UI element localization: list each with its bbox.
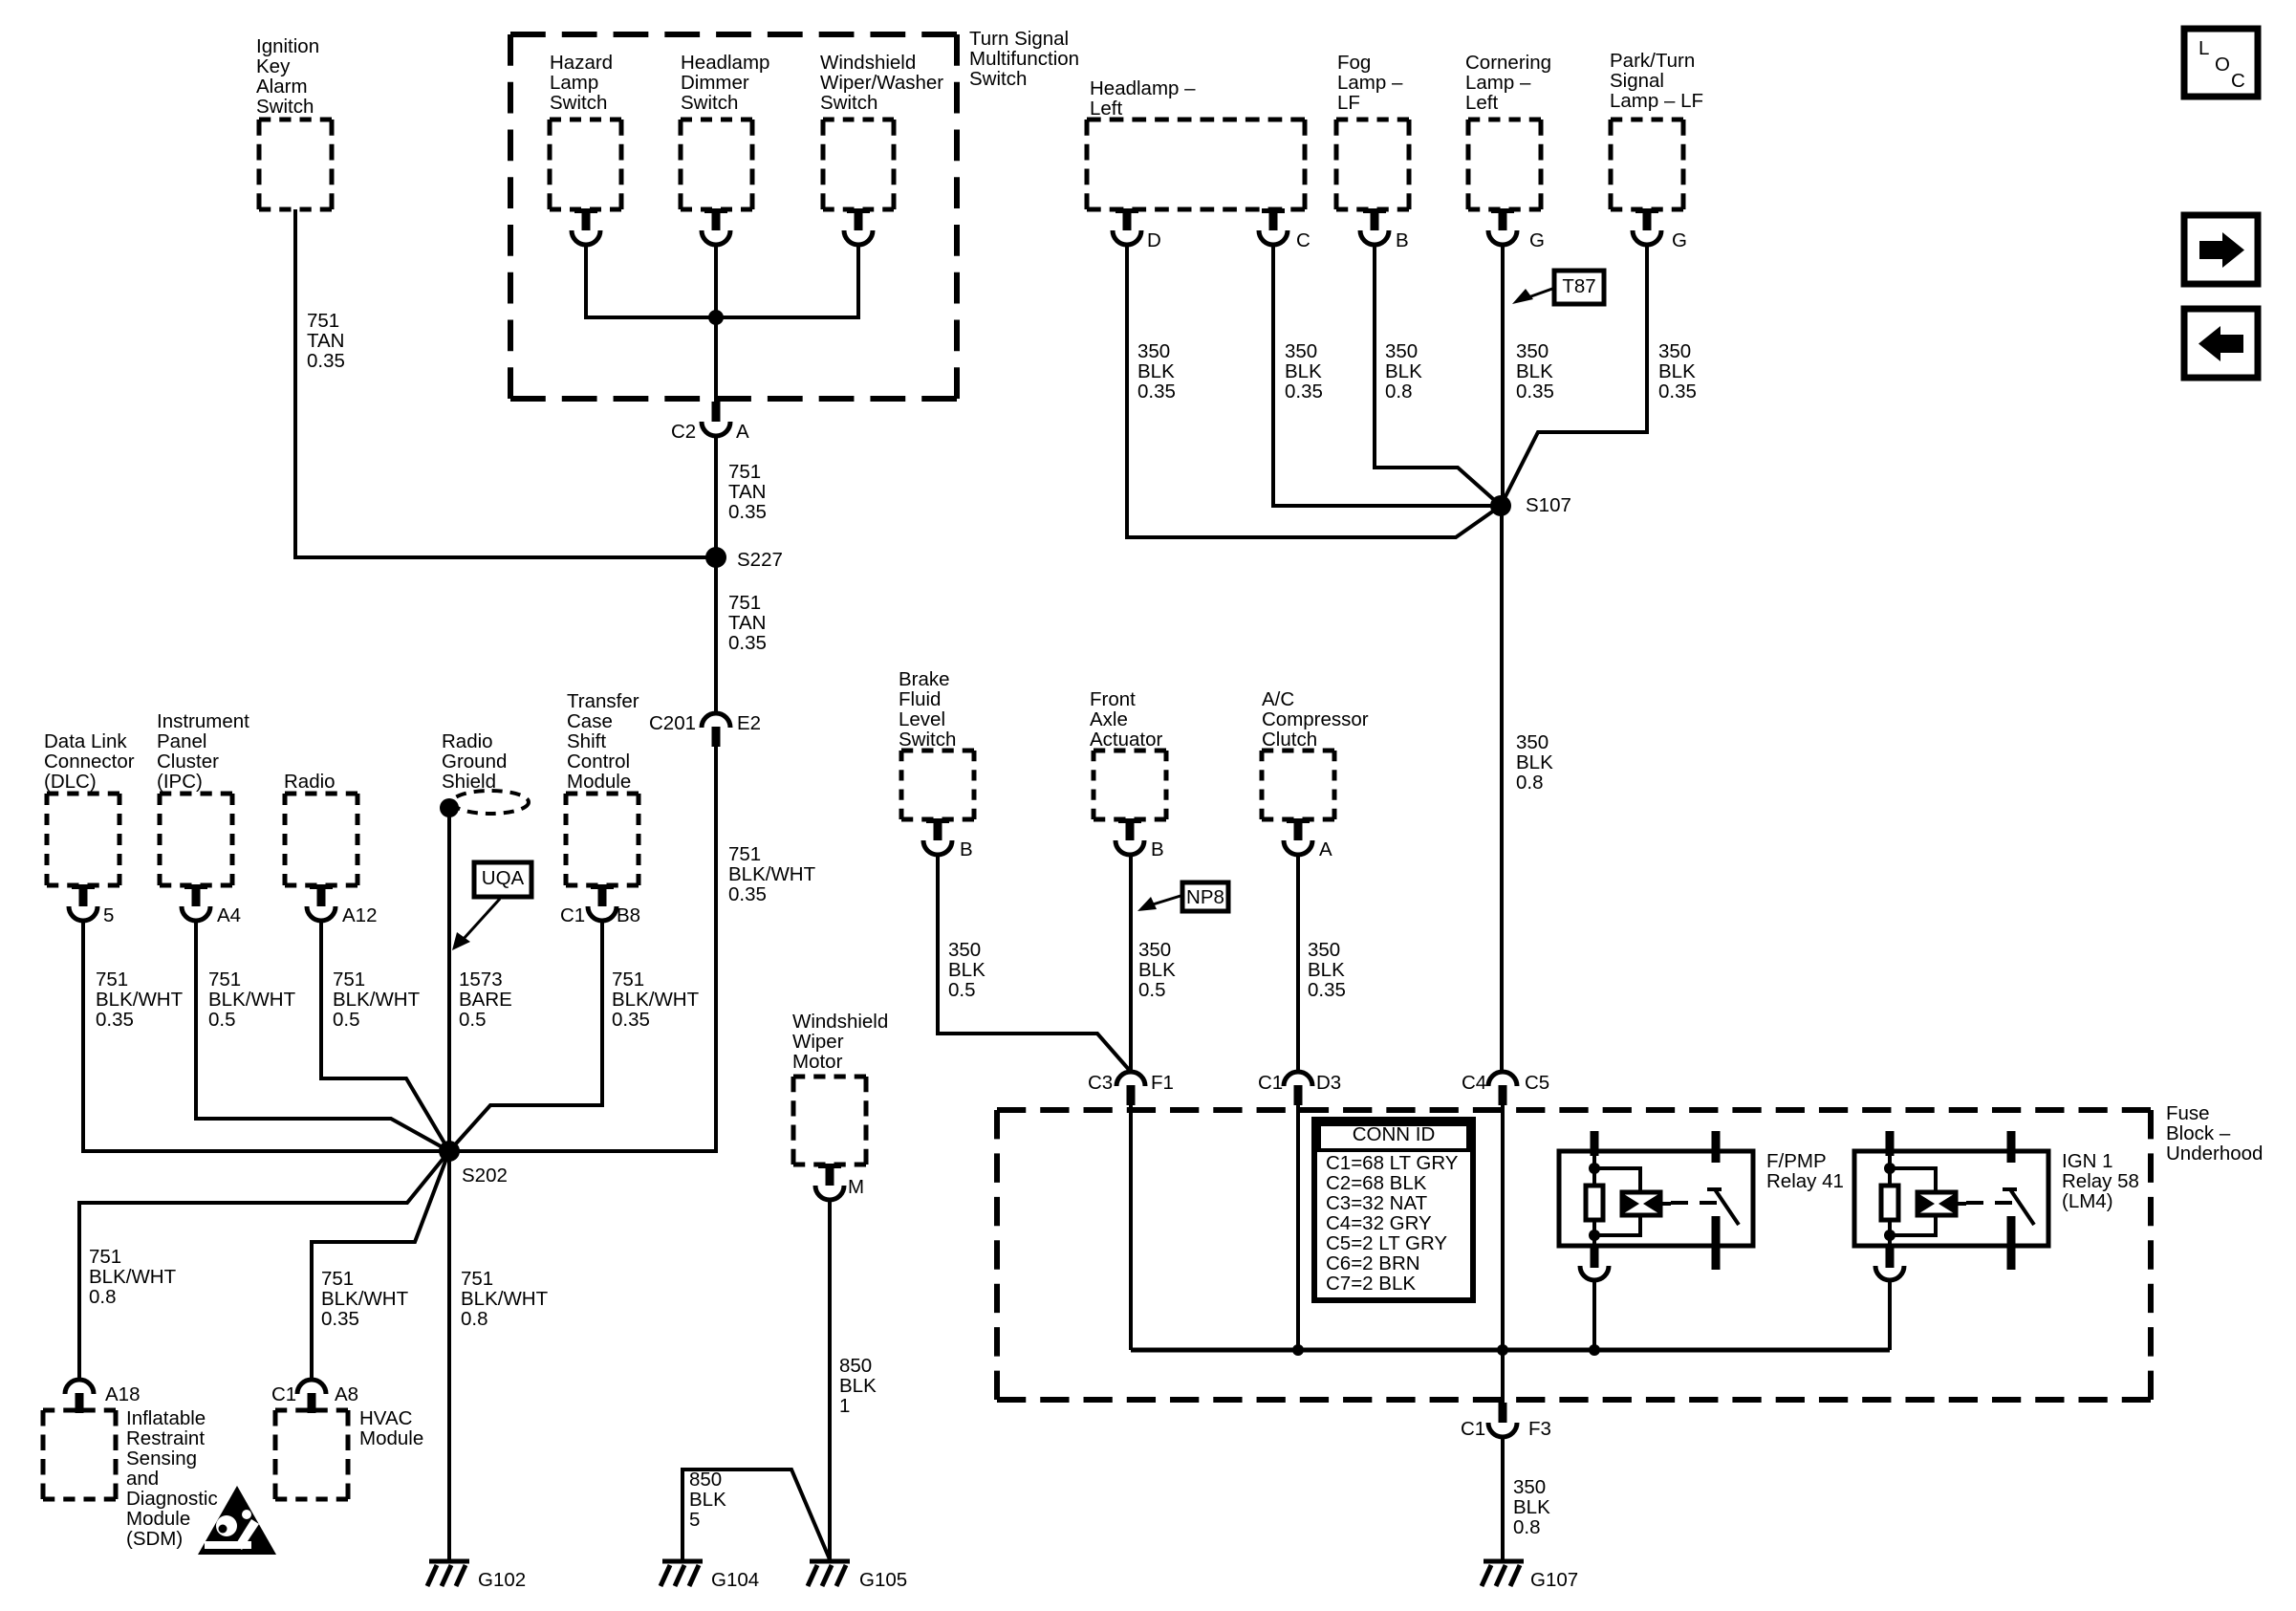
svg-text:Connector: Connector: [44, 751, 135, 773]
relay Relay 41 actuator dashed link: [1671, 1201, 1721, 1205]
svg-text:0.35: 0.35: [96, 1009, 134, 1031]
ground G102: [429, 1559, 469, 1564]
svg-text:Signal: Signal: [1610, 70, 1664, 92]
svg-text:Panel: Panel: [157, 730, 206, 752]
svg-text:Ground: Ground: [442, 751, 507, 773]
svg-text:BLK: BLK: [1516, 360, 1553, 382]
svg-text:A18: A18: [105, 1383, 140, 1405]
svg-text:Lamp – LF: Lamp – LF: [1610, 90, 1703, 112]
svg-text:Lamp –: Lamp –: [1465, 72, 1531, 94]
svg-text:BLK: BLK: [1138, 959, 1176, 981]
svg-text:0.35: 0.35: [307, 350, 345, 372]
navigation arrow left box: [2184, 309, 2258, 378]
svg-text:0.5: 0.5: [333, 1009, 360, 1031]
svg-text:C1: C1: [1461, 1418, 1485, 1440]
svg-text:BLK: BLK: [948, 959, 986, 981]
svg-text:CONN ID: CONN ID: [1353, 1123, 1436, 1145]
svg-text:Key: Key: [256, 55, 291, 77]
junction dot bus at F/PMP relay wire: [1589, 1344, 1600, 1356]
svg-text:Relay 41: Relay 41: [1766, 1170, 1844, 1192]
relay Relay 58 switch top pin: [2007, 1131, 2016, 1163]
svg-text:Case: Case: [567, 710, 613, 732]
svg-text:Lamp –: Lamp –: [1337, 72, 1403, 94]
svg-text:C6=2 BRN: C6=2 BRN: [1326, 1252, 1420, 1274]
wire 751 BLK/WHT 0.5 from IPC A4 to S202: [196, 919, 449, 1151]
svg-text:Block –: Block –: [2166, 1122, 2231, 1144]
svg-text:BLK: BLK: [1513, 1496, 1550, 1518]
svg-text:Restraint: Restraint: [126, 1427, 205, 1449]
wire from C1-D3 into fuse block to ground bus: [1296, 1103, 1300, 1350]
svg-text:Actuator: Actuator: [1090, 729, 1163, 751]
svg-text:BLK: BLK: [1385, 360, 1422, 382]
wire 350 BLK 0.8 from C1-F3 to G107: [1501, 1437, 1505, 1561]
wire 1573 BARE 0.5 from Radio Ground Shield through S202 to G102: [447, 815, 451, 1561]
svg-text:HVAC: HVAC: [359, 1407, 413, 1429]
svg-text:751: 751: [96, 969, 128, 991]
svg-text:350: 350: [1658, 340, 1691, 362]
svg-text:C1=68 LT GRY: C1=68 LT GRY: [1326, 1152, 1459, 1174]
svg-text:B8: B8: [617, 904, 640, 926]
svg-text:Cornering: Cornering: [1465, 52, 1551, 74]
wire from relay Relay 41 output to ground bus: [1592, 1280, 1596, 1350]
svg-text:F/PMP: F/PMP: [1766, 1150, 1827, 1172]
junction dot bus at D3 wire: [1292, 1344, 1304, 1356]
relay Relay 58 coil symbol: [1917, 1192, 1956, 1215]
svg-text:C4=32 GRY: C4=32 GRY: [1326, 1212, 1432, 1234]
svg-text:Windshield: Windshield: [792, 1011, 888, 1033]
relay box F/PMP Relay 41: [1559, 1151, 1753, 1246]
wire 350 BLK 0.35 from A/C Compressor Clutch A to C1-D3: [1296, 853, 1300, 1072]
svg-text:751: 751: [321, 1268, 354, 1290]
connector pin of Windshield Wiper/Washer Switch: [847, 208, 870, 213]
svg-text:0.35: 0.35: [612, 1009, 650, 1031]
wire 350 BLK 0.8 from Fog Lamp B to S107: [1375, 243, 1501, 506]
svg-text:IGN 1: IGN 1: [2062, 1150, 2113, 1172]
svg-text:751: 751: [461, 1268, 493, 1290]
svg-text:Relay 58: Relay 58: [2062, 1170, 2139, 1192]
svg-text:LF: LF: [1337, 92, 1360, 114]
wire 350 BLK 0.5 from Brake Fluid Level Switch B to C3-F1: [938, 853, 1131, 1072]
svg-text:Inflatable: Inflatable: [126, 1407, 206, 1429]
relay Relay 41 switch blade: [1707, 1187, 1722, 1191]
svg-text:751: 751: [728, 592, 761, 614]
svg-text:0.35: 0.35: [1137, 381, 1176, 403]
wire from Windshield Wiper/Washer Switch to junction: [716, 243, 858, 317]
svg-text:0.35: 0.35: [1658, 381, 1697, 403]
svg-text:751: 751: [728, 461, 761, 483]
wire 850 BLK 1 from Wiper Motor M to G105: [828, 1198, 832, 1561]
relay Relay 58 switch bottom pin: [2007, 1216, 2016, 1270]
svg-text:BLK/WHT: BLK/WHT: [612, 989, 700, 1011]
svg-text:B: B: [1151, 838, 1164, 860]
wire 850 BLK 5 from G104 to G105: [682, 1469, 830, 1561]
relay Relay 58 actuator dashed link: [1966, 1201, 2016, 1205]
svg-text:0.35: 0.35: [728, 883, 767, 905]
svg-text:S202: S202: [462, 1165, 508, 1186]
label flag UQA with arrow: [474, 862, 531, 897]
label flag T87 with arrow: [1554, 271, 1604, 304]
svg-text:G102: G102: [478, 1569, 526, 1591]
svg-text:751: 751: [208, 969, 241, 991]
svg-text:BLK: BLK: [1308, 959, 1345, 981]
svg-text:751: 751: [728, 843, 761, 865]
svg-text:BLK/WHT: BLK/WHT: [333, 989, 421, 1011]
svg-text:751: 751: [89, 1246, 121, 1268]
module box: HVAC Module: [275, 1408, 348, 1413]
svg-text:(DLC): (DLC): [44, 771, 97, 793]
relay Relay 58 coil top pin: [1886, 1131, 1895, 1156]
svg-text:0.35: 0.35: [728, 632, 767, 654]
wire from Hazard Lamp Switch to junction: [586, 243, 716, 317]
svg-text:Module: Module: [359, 1427, 423, 1449]
wire 751 BLK/WHT 0.35 from DLC 5 to S202: [83, 919, 449, 1151]
svg-text:0.8: 0.8: [1516, 772, 1544, 794]
svg-text:A8: A8: [335, 1383, 358, 1405]
svg-text:350: 350: [1285, 340, 1317, 362]
svg-text:350: 350: [948, 939, 981, 961]
wire 350 BLK 0.35 from Cornering Lamp G to S107: [1501, 243, 1505, 506]
svg-text:TAN: TAN: [728, 612, 766, 634]
svg-text:751: 751: [612, 969, 644, 991]
svg-text:L: L: [2199, 37, 2209, 59]
navigation arrow right box: [2184, 215, 2258, 284]
svg-text:M: M: [848, 1176, 864, 1198]
svg-text:0.35: 0.35: [1308, 979, 1346, 1001]
ground G107: [1484, 1559, 1524, 1564]
svg-text:D: D: [1147, 229, 1161, 251]
svg-text:Left: Left: [1465, 92, 1498, 114]
svg-text:Dimmer: Dimmer: [681, 72, 749, 94]
svg-text:E2: E2: [737, 712, 761, 734]
svg-text:5: 5: [689, 1509, 700, 1531]
svg-text:0.35: 0.35: [1516, 381, 1554, 403]
wire 751 TAN 0.35 from C2-A to S227: [714, 436, 718, 557]
svg-text:0.5: 0.5: [208, 1009, 236, 1031]
CONN ID table: [1314, 1120, 1473, 1300]
svg-text:TAN: TAN: [728, 481, 766, 503]
fuse block ground bus wire: [1131, 1348, 1890, 1353]
splice S202: [439, 1141, 460, 1162]
wire 751 BLK/WHT 0.35 from S202 to HVAC A8: [312, 1151, 449, 1380]
svg-text:G104: G104: [711, 1569, 759, 1591]
connector pin of Headlamp Dimmer Switch: [704, 208, 727, 213]
svg-text:Control: Control: [567, 751, 630, 773]
svg-text:350: 350: [1516, 340, 1549, 362]
relay Relay 58 output pin connector: [1886, 1246, 1895, 1268]
svg-text:G: G: [1529, 229, 1545, 251]
splice S227: [705, 547, 726, 568]
svg-text:A/C: A/C: [1262, 688, 1294, 710]
relay Relay 41 switch bottom pin: [1712, 1216, 1721, 1270]
svg-text:C1: C1: [1258, 1072, 1283, 1094]
svg-text:0.8: 0.8: [1513, 1516, 1541, 1538]
svg-text:Brake: Brake: [899, 668, 950, 690]
wire 350 BLK 0.5 from Front Axle Actuator B to C3-F1: [1129, 853, 1133, 1072]
svg-text:Switch: Switch: [681, 92, 738, 114]
svg-text:and: and: [126, 1468, 159, 1490]
svg-text:BLK/WHT: BLK/WHT: [321, 1288, 409, 1310]
svg-text:Left: Left: [1090, 98, 1122, 120]
wire 751 TAN 0.35 from S227 to C201: [714, 557, 718, 713]
svg-text:Switch: Switch: [899, 729, 956, 751]
svg-text:Axle: Axle: [1090, 708, 1128, 730]
svg-text:T87: T87: [1562, 275, 1595, 297]
svg-text:Compressor: Compressor: [1262, 708, 1369, 730]
svg-text:C: C: [2231, 70, 2245, 92]
svg-text:Module: Module: [126, 1508, 190, 1530]
ground G105: [810, 1559, 850, 1564]
svg-text:(LM4): (LM4): [2062, 1190, 2113, 1212]
svg-text:Ignition: Ignition: [256, 35, 319, 57]
svg-text:Cluster: Cluster: [157, 751, 219, 773]
relay Relay 41 coil top pin: [1591, 1131, 1599, 1156]
junction dot bus at C5 wire: [1497, 1344, 1508, 1356]
navigation legend LOC box: [2184, 29, 2258, 97]
svg-text:(IPC): (IPC): [157, 771, 203, 793]
svg-text:B: B: [1396, 229, 1409, 251]
svg-text:C5: C5: [1525, 1072, 1549, 1094]
svg-text:BLK/WHT: BLK/WHT: [461, 1288, 549, 1310]
label flag NP8 with arrow: [1182, 882, 1228, 911]
svg-text:Alarm: Alarm: [256, 76, 308, 98]
svg-text:C7=2 BLK: C7=2 BLK: [1326, 1273, 1416, 1295]
svg-text:Clutch: Clutch: [1262, 729, 1317, 751]
svg-text:BLK/WHT: BLK/WHT: [208, 989, 296, 1011]
svg-text:BLK: BLK: [1658, 360, 1696, 382]
wire 350 BLK 0.35 from Headlamp-Left C to S107: [1273, 243, 1501, 506]
svg-text:C201: C201: [649, 712, 696, 734]
relay Relay 41 output pin connector: [1591, 1246, 1599, 1268]
svg-text:0.35: 0.35: [728, 501, 767, 523]
svg-text:F3: F3: [1528, 1418, 1551, 1440]
svg-text:1573: 1573: [459, 969, 503, 991]
svg-text:C: C: [1296, 229, 1310, 251]
svg-text:Instrument: Instrument: [157, 710, 249, 732]
wire from relay Relay 58 output to ground bus: [1888, 1280, 1892, 1350]
svg-text:751: 751: [307, 310, 339, 332]
svg-text:A: A: [736, 421, 749, 443]
svg-text:A4: A4: [217, 904, 241, 926]
svg-text:NP8: NP8: [1186, 886, 1224, 908]
svg-text:(SDM): (SDM): [126, 1528, 183, 1550]
svg-text:BLK: BLK: [1285, 360, 1322, 382]
svg-text:BLK/WHT: BLK/WHT: [89, 1266, 177, 1288]
relay Relay 41 coil circuit: [1592, 1151, 1596, 1186]
svg-text:C3=32 NAT: C3=32 NAT: [1326, 1192, 1428, 1214]
wire 751 BLK/WHT 0.35 from TCSCM B8 to S202: [449, 919, 602, 1151]
svg-text:0.8: 0.8: [1385, 381, 1413, 403]
svg-text:Radio: Radio: [284, 771, 336, 793]
relay box IGN 1 Relay 58: [1854, 1151, 2048, 1246]
svg-text:O: O: [2215, 54, 2230, 76]
svg-text:B: B: [960, 838, 973, 860]
svg-text:Shift: Shift: [567, 730, 606, 752]
svg-text:Module: Module: [567, 771, 631, 793]
svg-text:C2=68 BLK: C2=68 BLK: [1326, 1172, 1427, 1194]
SDM airbag warning triangle icon: [198, 1486, 276, 1555]
wire from Headlamp Dimmer Switch to C2: [714, 243, 718, 403]
svg-text:0.5: 0.5: [1138, 979, 1166, 1001]
module box: Fuse Block - Underhood (dashed): [997, 1107, 2151, 1113]
svg-text:G: G: [1672, 229, 1687, 251]
svg-text:D3: D3: [1316, 1072, 1341, 1094]
svg-text:C5=2 LT GRY: C5=2 LT GRY: [1326, 1232, 1447, 1254]
svg-text:BLK/WHT: BLK/WHT: [728, 863, 816, 885]
wire 751 BLK/WHT 0.5 from Radio A12 to S202: [321, 919, 449, 1151]
svg-text:Underhood: Underhood: [2166, 1143, 2263, 1165]
svg-text:0.35: 0.35: [1285, 381, 1323, 403]
svg-text:BLK/WHT: BLK/WHT: [96, 989, 184, 1011]
svg-text:Switch: Switch: [256, 96, 314, 118]
junction dot inside Turn Signal Multifunction Switch: [708, 310, 724, 325]
svg-text:Hazard: Hazard: [550, 52, 613, 74]
svg-text:Headlamp –: Headlamp –: [1090, 77, 1196, 99]
svg-text:Level: Level: [899, 708, 945, 730]
svg-text:Fog: Fog: [1337, 52, 1371, 74]
svg-text:Fuse: Fuse: [2166, 1102, 2210, 1124]
svg-text:C4: C4: [1462, 1072, 1486, 1094]
svg-text:0.35: 0.35: [321, 1308, 359, 1330]
svg-text:Diagnostic: Diagnostic: [126, 1488, 218, 1510]
svg-text:350: 350: [1516, 731, 1549, 753]
svg-text:Switch: Switch: [820, 92, 877, 114]
svg-text:Data Link: Data Link: [44, 730, 127, 752]
svg-text:Switch: Switch: [969, 68, 1027, 90]
svg-text:A: A: [1319, 838, 1332, 860]
svg-text:UQA: UQA: [482, 867, 525, 889]
svg-text:S107: S107: [1526, 494, 1571, 516]
wire 751 BLK/WHT 0.8 from S202 to A18: [79, 1151, 449, 1380]
svg-text:Wiper/Washer: Wiper/Washer: [820, 72, 943, 94]
svg-text:C2: C2: [671, 421, 696, 443]
splice S107: [1490, 495, 1511, 516]
svg-text:Park/Turn: Park/Turn: [1610, 50, 1695, 72]
svg-text:C3: C3: [1088, 1072, 1113, 1094]
svg-text:Lamp: Lamp: [550, 72, 598, 94]
svg-text:0.8: 0.8: [461, 1308, 488, 1330]
relay Relay 41 coil symbol: [1622, 1192, 1660, 1215]
svg-text:1: 1: [839, 1395, 850, 1417]
svg-text:850: 850: [689, 1469, 722, 1491]
svg-text:Shield: Shield: [442, 771, 496, 793]
svg-text:TAN: TAN: [307, 330, 344, 352]
svg-text:Wiper: Wiper: [792, 1031, 844, 1053]
svg-text:F1: F1: [1151, 1072, 1174, 1094]
svg-text:G105: G105: [859, 1569, 907, 1591]
svg-text:Fluid: Fluid: [899, 688, 941, 710]
wire from C3-F1 into fuse block to ground bus: [1129, 1103, 1133, 1350]
svg-text:850: 850: [839, 1355, 872, 1377]
svg-text:G107: G107: [1530, 1569, 1578, 1591]
relay Relay 58 switch blade: [2003, 1187, 2017, 1191]
svg-text:350: 350: [1138, 939, 1171, 961]
wire 751 TAN 0.35 from Ignition Key Alarm Switch to S227: [295, 209, 713, 557]
svg-text:350: 350: [1308, 939, 1340, 961]
svg-text:BLK: BLK: [1516, 751, 1553, 773]
svg-text:350: 350: [1385, 340, 1418, 362]
svg-text:5: 5: [103, 904, 114, 926]
svg-text:BLK: BLK: [689, 1489, 726, 1511]
svg-text:C1: C1: [271, 1383, 296, 1405]
wire 350 BLK 0.35 from Headlamp-Left D to S107: [1127, 243, 1501, 537]
svg-text:Headlamp: Headlamp: [681, 52, 769, 74]
svg-text:Radio: Radio: [442, 730, 493, 752]
relay Relay 41 switch top pin: [1712, 1131, 1721, 1163]
svg-text:C1: C1: [560, 904, 585, 926]
svg-text:Motor: Motor: [792, 1051, 843, 1073]
wire 350 BLK 0.8 from S107 to C4-C5: [1500, 506, 1504, 1072]
svg-text:BLK: BLK: [1137, 360, 1175, 382]
svg-text:BLK: BLK: [839, 1375, 877, 1397]
wire 350 BLK 0.35 from Park/Turn Signal Lamp G to S107: [1501, 243, 1647, 506]
svg-text:751: 751: [333, 969, 365, 991]
svg-text:Front: Front: [1090, 688, 1136, 710]
svg-text:0.5: 0.5: [948, 979, 976, 1001]
ground G104: [662, 1559, 703, 1564]
svg-text:Switch: Switch: [550, 92, 607, 114]
connector pin of Hazard Lamp Switch: [574, 208, 597, 213]
module box: Inflatable Restraint Sensing and Diagnostic Module (SDM): [43, 1408, 116, 1413]
svg-text:Windshield: Windshield: [820, 52, 916, 74]
svg-text:A12: A12: [342, 904, 377, 926]
wire 751 BLK/WHT 0.35 from C201-E2 to S202: [449, 745, 716, 1151]
svg-text:Multifunction: Multifunction: [969, 48, 1079, 70]
svg-text:Transfer: Transfer: [567, 690, 639, 712]
svg-text:350: 350: [1513, 1476, 1546, 1498]
svg-text:Sensing: Sensing: [126, 1448, 197, 1469]
wire 350 BLK 0.8 from C4-C5 through fuse block to C1-F3: [1501, 1103, 1505, 1403]
relay Relay 58 coil circuit: [1888, 1151, 1892, 1186]
svg-text:BARE: BARE: [459, 989, 512, 1011]
svg-text:350: 350: [1137, 340, 1170, 362]
svg-text:0.8: 0.8: [89, 1286, 117, 1308]
svg-text:Turn Signal: Turn Signal: [969, 28, 1069, 50]
svg-text:0.5: 0.5: [459, 1009, 487, 1031]
svg-text:S227: S227: [737, 549, 783, 571]
